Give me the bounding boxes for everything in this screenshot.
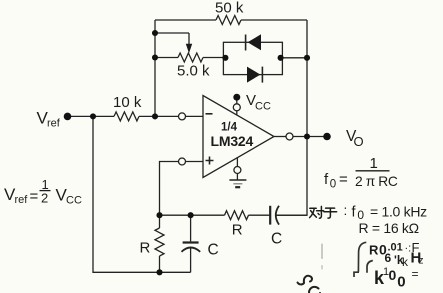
VCC pin stem to op-amp xyxy=(236,111,238,116)
svg-text:=: = xyxy=(30,188,39,205)
ground pin circle xyxy=(234,167,241,174)
svg-text:1: 1 xyxy=(370,155,378,172)
resistor R (to ground rail) xyxy=(159,215,161,228)
VCC pin circle xyxy=(233,104,240,111)
wire op-amp to plus pin circle xyxy=(185,161,203,163)
wire pot to diode box xyxy=(203,57,223,59)
svg-text:6: 6 xyxy=(385,251,392,265)
junction node C top xyxy=(188,212,194,218)
artifact faint tick upper xyxy=(321,244,323,259)
capacitor C (series) curved plate xyxy=(276,206,279,225)
svg-text:ref: ref xyxy=(47,118,61,130)
wire op-amp output xyxy=(274,136,286,138)
wire diode box to right rail xyxy=(282,57,307,59)
svg-text:2: 2 xyxy=(41,190,48,205)
wire pot row left xyxy=(155,57,178,59)
terminal dot Vref xyxy=(64,113,72,121)
svg-text:1/4: 1/4 xyxy=(221,122,238,134)
capacitor C (shunt) top plate xyxy=(183,241,199,243)
svg-text:5.0 k: 5.0 k xyxy=(177,63,210,80)
artifact corner mark xyxy=(354,272,359,277)
svg-text:k: k xyxy=(402,255,409,269)
junction node left rail / 10k xyxy=(152,113,158,119)
potentiometer 5.0 k xyxy=(178,53,203,62)
capacitor C (shunt) lead xyxy=(190,215,192,241)
junction node diode box left xyxy=(222,55,228,61)
junction node 10k/left drop xyxy=(90,113,96,119)
terminal dot VCC xyxy=(233,94,240,101)
ground bar 3 xyxy=(235,186,240,188)
wire 10k to inverting pin circle xyxy=(139,115,179,117)
svg-text:50 k: 50 k xyxy=(215,0,244,17)
capacitor C (series) left plate xyxy=(269,206,271,225)
ground bar 1 xyxy=(229,179,246,181)
wire wiper arm xyxy=(155,33,189,45)
svg-text:2 π RC: 2 π RC xyxy=(355,174,398,189)
wire left drop and bottom rail xyxy=(93,116,191,272)
svg-text:=: = xyxy=(412,267,419,281)
svg-text:10 k: 10 k xyxy=(113,94,142,111)
resistor R (series) xyxy=(225,211,249,220)
inverting input pin circle xyxy=(179,113,186,120)
diode D1 (points left) xyxy=(248,34,261,50)
svg-text:0: 0 xyxy=(389,267,397,283)
wire RC node row xyxy=(160,214,225,216)
output pin circle xyxy=(286,133,293,140)
op-amp minus sign xyxy=(206,113,213,115)
diode box outline xyxy=(223,42,282,74)
capacitor C (shunt) bottom lead xyxy=(190,248,192,273)
junction node bottom rail xyxy=(156,269,162,275)
svg-text:R: R xyxy=(140,240,151,257)
ground stem lower xyxy=(236,173,238,180)
fraction bar of fo formula xyxy=(356,170,390,172)
VCC stem xyxy=(236,99,238,104)
op-amp plus sign xyxy=(206,157,214,165)
wire pin circle to op-amp xyxy=(185,115,203,117)
junction node diode box right xyxy=(278,55,284,61)
svg-text:C: C xyxy=(271,231,282,248)
svg-text:0: 0 xyxy=(397,273,405,290)
svg-text:CC: CC xyxy=(255,101,271,113)
svg-text:=: = xyxy=(339,171,348,188)
fraction bar of 1/2 xyxy=(40,190,51,192)
junction node right rail / diodes xyxy=(304,55,310,61)
svg-text:LM324: LM324 xyxy=(211,133,254,149)
svg-text:R = 16 kΩ: R = 16 kΩ xyxy=(359,220,419,236)
artifact bracket large xyxy=(358,242,366,271)
artifact bracket small xyxy=(367,261,373,273)
svg-text:z: z xyxy=(419,256,424,267)
junction node R top xyxy=(156,212,162,218)
artifact squiggle xyxy=(298,276,312,285)
junction node pot left xyxy=(152,54,158,60)
wire left rail xyxy=(154,20,156,116)
ground bar 2 xyxy=(233,183,242,185)
svg-text:R: R xyxy=(232,222,243,239)
wire top rail left xyxy=(155,19,216,21)
artifact faint tick lower xyxy=(321,266,323,270)
wire Vref row xyxy=(68,115,115,117)
svg-text:C: C xyxy=(208,242,219,259)
wire R to C xyxy=(249,214,271,216)
svg-text:ref: ref xyxy=(15,194,29,206)
hanzi yu (of duiyu) xyxy=(326,207,335,209)
svg-text:R: R xyxy=(369,243,379,258)
diode D1 cathode bar xyxy=(245,35,247,51)
svg-text:CC: CC xyxy=(66,195,82,207)
terminal dot VO xyxy=(323,133,331,141)
capacitor C (shunt) curved plate xyxy=(182,248,201,252)
wire top rail right xyxy=(241,19,307,21)
svg-text:f: f xyxy=(324,171,329,188)
junction node wiper arm xyxy=(152,30,158,36)
diode D2 cathode bar xyxy=(261,67,263,83)
diode D2 (points right) xyxy=(247,67,260,83)
ground stem upper xyxy=(236,158,238,167)
wire plus pin down to RC node xyxy=(160,162,179,216)
svg-text:= 1.0 kHz: = 1.0 kHz xyxy=(370,203,427,219)
svg-text:O: O xyxy=(354,134,364,149)
wire right rail down to feedback corner xyxy=(276,20,307,215)
resistor 50 k xyxy=(216,16,241,25)
potentiometer arrow xyxy=(186,44,192,54)
junction node output xyxy=(304,133,310,139)
wire C to right rail xyxy=(276,214,307,216)
op-amp U1 triangle xyxy=(203,96,274,178)
svg-text:f: f xyxy=(352,205,357,221)
non-inverting input pin circle xyxy=(179,158,186,165)
artifact C curl xyxy=(309,287,320,293)
svg-text::: : xyxy=(344,203,348,218)
resistor 10 k xyxy=(114,112,139,121)
svg-text:0: 0 xyxy=(330,179,336,191)
wire output to VO terminal xyxy=(293,136,327,138)
hanzi dui (of duiyu) xyxy=(310,207,316,209)
